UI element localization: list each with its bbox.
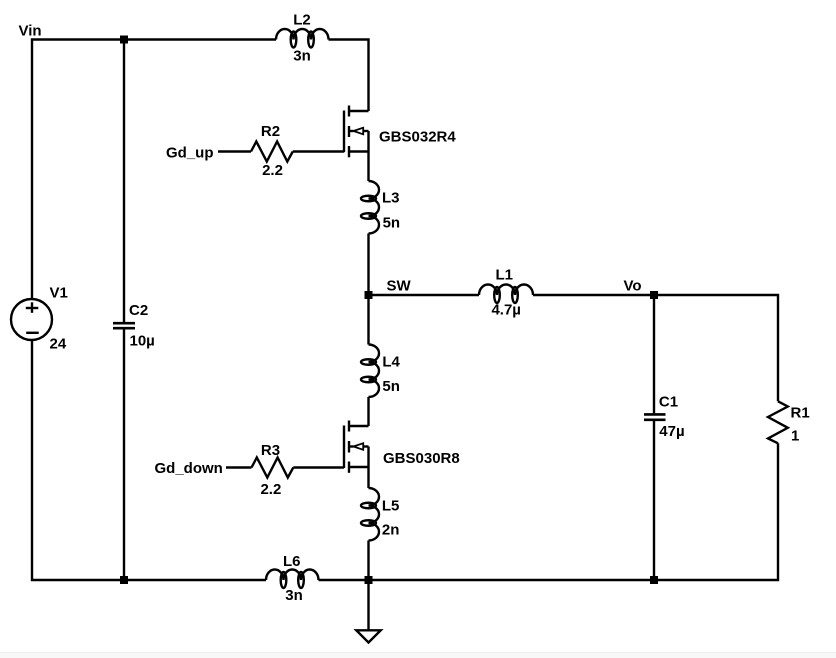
svg-text:R2: R2 [261,123,280,140]
wire L1 to Vo to R1 [533,295,778,401]
svg-text:L6: L6 [283,553,301,570]
wire source to L3 [367,152,369,182]
ground [356,580,380,643]
svg-text:C1: C1 [659,394,678,411]
status bar strip [0,652,836,658]
svg-text:47µ: 47µ [659,423,684,440]
wire L5 to rail [367,541,369,581]
wire L4 to drain [367,397,369,426]
inductor L2 [276,12,329,65]
svg-text:5n: 5n [383,215,401,232]
resistor R1 [768,401,810,444]
svg-text:Gd_up: Gd_up [166,145,214,162]
inductor L1 [479,267,533,319]
svg-text:C2: C2 [129,302,148,319]
node junction C1/rail [650,576,658,584]
resistor R3 [252,442,294,498]
node junction C2/rail [120,576,128,584]
svg-text:2n: 2n [382,521,400,538]
capacitor C1 [644,295,685,580]
transistor M2 GBS030R8 [344,421,460,473]
svg-text:L5: L5 [382,498,400,515]
wire Gd_up to R2 [218,150,251,152]
inductor L4 [361,345,401,398]
resistor R2 [251,123,293,179]
transistor M1 GBS032R4 [344,106,456,158]
wire SW to L1 [369,294,480,296]
wire top rail right / drain drop [329,40,369,112]
svg-text:3n: 3n [293,47,311,64]
svg-text:GBS030R8: GBS030R8 [383,450,460,467]
svg-text:L1: L1 [495,267,513,284]
svg-text:L3: L3 [382,190,400,207]
svg-text:V1: V1 [50,284,68,301]
wire Gd_down to R3 [226,466,252,468]
node junction ground/rail [365,576,373,584]
inductor L5 [361,488,399,541]
svg-text:R3: R3 [261,442,280,459]
capacitor C2 [113,39,155,581]
inductor L6 [266,553,319,604]
svg-text:3n: 3n [285,587,303,604]
svg-text:2.2: 2.2 [262,162,283,179]
svg-text:Gd_down: Gd_down [155,460,223,477]
svg-text:R1: R1 [791,405,810,422]
wire source to L5 [367,467,369,488]
svg-text:5n: 5n [382,378,400,395]
svg-text:10µ: 10µ [130,332,155,349]
svg-text:GBS032R4: GBS032R4 [379,129,456,146]
wire L3 to SW [367,234,369,296]
svg-text:Vo: Vo [624,278,642,295]
wire SW to L4 [367,295,369,345]
node junction top (C2/Vin) [120,36,128,44]
node SW [365,277,412,299]
wire R1 bottom to rail [319,443,779,580]
svg-text:SW: SW [387,277,412,294]
svg-text:4.7µ: 4.7µ [491,301,521,318]
svg-text:24: 24 [50,335,67,352]
wire V1 bottom to rail [32,340,266,580]
wire top rail left [32,40,276,300]
svg-text:L2: L2 [293,12,311,29]
inductor L3 [361,181,400,234]
svg-text:L4: L4 [382,354,400,371]
svg-text:2.2: 2.2 [260,481,281,498]
svg-text:1: 1 [791,428,799,445]
voltage source V1 [11,284,68,352]
node Vo [624,278,659,300]
wire R3 to gate [293,466,344,468]
svg-text:Vin: Vin [19,23,42,40]
wire R2 to gate [293,150,344,152]
